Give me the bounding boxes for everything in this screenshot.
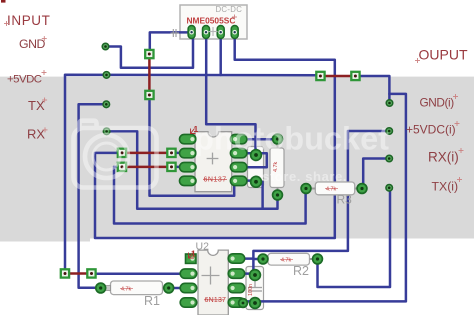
- svg-text:6N137: 6N137: [205, 297, 227, 304]
- svg-text:R3: R3: [337, 193, 353, 207]
- svg-text:4.7k: 4.7k: [326, 187, 336, 193]
- svg-text:4.7k: 4.7k: [121, 287, 131, 293]
- svg-text:U2: U2: [196, 241, 210, 253]
- svg-text:R2: R2: [293, 264, 309, 278]
- svg-text:+5VDC: +5VDC: [7, 74, 42, 86]
- svg-text:6N137: 6N137: [204, 177, 227, 184]
- svg-text:NME0505SC: NME0505SC: [187, 16, 236, 26]
- svg-text:GND: GND: [19, 37, 45, 51]
- svg-text:RX(i): RX(i): [428, 150, 459, 165]
- svg-text:RX: RX: [27, 127, 45, 142]
- svg-text:TX(i): TX(i): [432, 180, 459, 194]
- svg-text:4.7k: 4.7k: [281, 258, 291, 264]
- svg-text:R1: R1: [144, 294, 160, 308]
- svg-text:store. share.: store. share.: [262, 169, 347, 184]
- svg-text:DC-DC: DC-DC: [216, 5, 243, 14]
- svg-text:+5VDC(i): +5VDC(i): [406, 123, 456, 137]
- svg-text:OUPUT: OUPUT: [419, 47, 468, 63]
- svg-text:photobucket: photobucket: [194, 121, 389, 157]
- svg-text:INPUT: INPUT: [7, 13, 51, 28]
- svg-text:100n: 100n: [248, 284, 254, 296]
- svg-text:GND(i): GND(i): [420, 96, 455, 110]
